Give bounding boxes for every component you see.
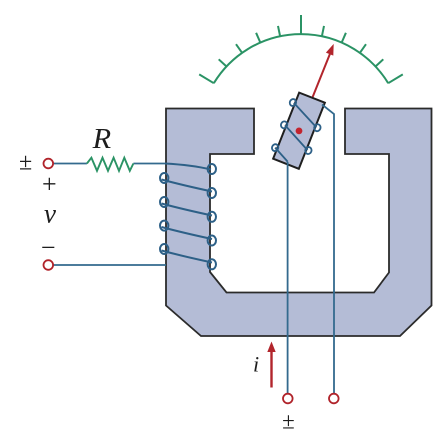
terminal: bottom left <box>44 260 54 270</box>
pivot dot on armature <box>296 127 303 134</box>
scale tick marks <box>199 15 403 83</box>
svg-text:R: R <box>92 124 112 155</box>
svg-text:±: ± <box>282 408 295 433</box>
wire: armature exit to left bottom terminal <box>287 162 289 394</box>
svg-text:−: − <box>41 233 56 262</box>
svg-text:v: v <box>44 199 56 229</box>
terminal: bottom center-left <box>283 394 293 404</box>
wire: top lead from terminal to resistor <box>53 164 166 266</box>
wire: resistor to core <box>133 163 165 165</box>
magnet core (horseshoe yoke with pole pieces) <box>166 109 432 337</box>
wire: armature entry to right bottom terminal <box>322 105 334 394</box>
moving coil armature (rotating rectangle) <box>273 93 325 169</box>
coil front strand 1 <box>162 180 213 192</box>
terminal: bottom center-right <box>329 394 339 404</box>
terminal: top left <box>44 159 54 169</box>
coil left-edge loops <box>160 173 168 183</box>
coil front strand 3 <box>162 227 213 239</box>
wire: bottom lead from terminal to core <box>53 264 166 266</box>
field coil on left leg of core <box>160 164 216 270</box>
current arrow i <box>267 342 275 388</box>
coil front strand 0 (continuation of top wire) <box>165 164 211 170</box>
armature winding turns <box>269 98 327 168</box>
coil right-edge loops <box>208 164 216 174</box>
svg-text:+: + <box>42 170 57 199</box>
meter scale arc <box>214 34 388 83</box>
svg-text:i: i <box>253 352 259 377</box>
coil front strand 4 <box>162 251 213 263</box>
svg-text:±: ± <box>19 149 32 175</box>
coil front strand 2 <box>162 204 213 216</box>
pointer needle N1 <box>299 44 334 131</box>
resistor R <box>87 158 133 171</box>
